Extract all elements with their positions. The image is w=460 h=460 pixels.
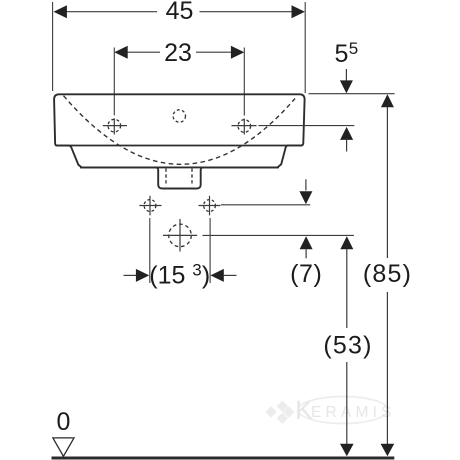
dimension 45 left extension line bbox=[52, 2, 54, 91]
datum triangle bbox=[53, 438, 74, 456]
tap hole centerline extending right bbox=[258, 125, 354, 127]
watermark keramis logo diamonds bbox=[265, 401, 294, 424]
svg-text:3: 3 bbox=[192, 261, 201, 280]
dimension (15-3) right extension line bbox=[209, 218, 211, 283]
dimension (15-3) left extension line bbox=[149, 218, 151, 283]
svg-text:(15: (15 bbox=[149, 262, 185, 290]
svg-text:(7): (7) bbox=[290, 260, 322, 288]
watermark keramis ellipse swoosh bbox=[298, 397, 388, 424]
dimension 23 right extension line (to right tap hole) bbox=[243, 48, 245, 116]
svg-text:): ) bbox=[202, 262, 210, 290]
dimension (53) line with arrows bbox=[340, 236, 353, 249]
svg-text:0: 0 bbox=[57, 408, 71, 436]
svg-text:5: 5 bbox=[349, 39, 358, 58]
left tap hole bbox=[108, 119, 121, 132]
dimension 23 left extension line (to left tap hole) bbox=[113, 48, 115, 116]
dimension 45 right extension line bbox=[304, 2, 306, 93]
left fixing hole bbox=[144, 200, 156, 212]
dimension 23 right arrowhead bbox=[231, 46, 244, 59]
basin outline: bottom edge and drain sleeve bbox=[80, 167, 279, 188]
svg-text:ERAMIS: ERAMIS bbox=[311, 404, 396, 421]
basin rim bottom line bbox=[56, 145, 303, 147]
dimension 5-5 upper arrow (down) bbox=[345, 69, 347, 81]
svg-text:23: 23 bbox=[164, 39, 192, 67]
bowl dashed curve bbox=[64, 96, 296, 165]
dimension 45 line bbox=[66, 11, 294, 13]
dimension 23 line bbox=[127, 51, 233, 53]
drain hole centerline extending right bbox=[203, 234, 354, 236]
dimension 5-5 lower arrow (up) bbox=[340, 127, 353, 140]
dimension (7) lower arrow (up) bbox=[300, 236, 313, 249]
right tap hole bbox=[238, 120, 251, 133]
svg-text:45: 45 bbox=[166, 0, 194, 25]
dimension (7) upper arrow (down) bbox=[305, 179, 307, 190]
svg-text:(85): (85) bbox=[363, 260, 412, 288]
floor line bbox=[52, 457, 395, 460]
right fixing hole bbox=[204, 200, 216, 212]
overflow dashed circle bbox=[173, 110, 185, 122]
dimension (85) line with arrows bbox=[381, 94, 394, 107]
dimension 45 left arrowhead bbox=[54, 5, 67, 18]
svg-text:(53): (53) bbox=[323, 331, 372, 359]
dimension 23 left arrowhead bbox=[114, 46, 127, 59]
basin top reference line bbox=[309, 93, 395, 95]
svg-text:5: 5 bbox=[335, 40, 349, 68]
dimension (15-3) left arrow bbox=[124, 274, 138, 276]
drain hole bbox=[169, 224, 192, 247]
dimension (15-3) right arrow bbox=[210, 269, 223, 282]
dimension 45 right arrowhead bbox=[292, 5, 305, 18]
basin outline bbox=[54, 94, 305, 167]
fixing holes centerline extending right bbox=[221, 204, 310, 206]
drain sleeve dashed inner walls bbox=[165, 169, 167, 187]
